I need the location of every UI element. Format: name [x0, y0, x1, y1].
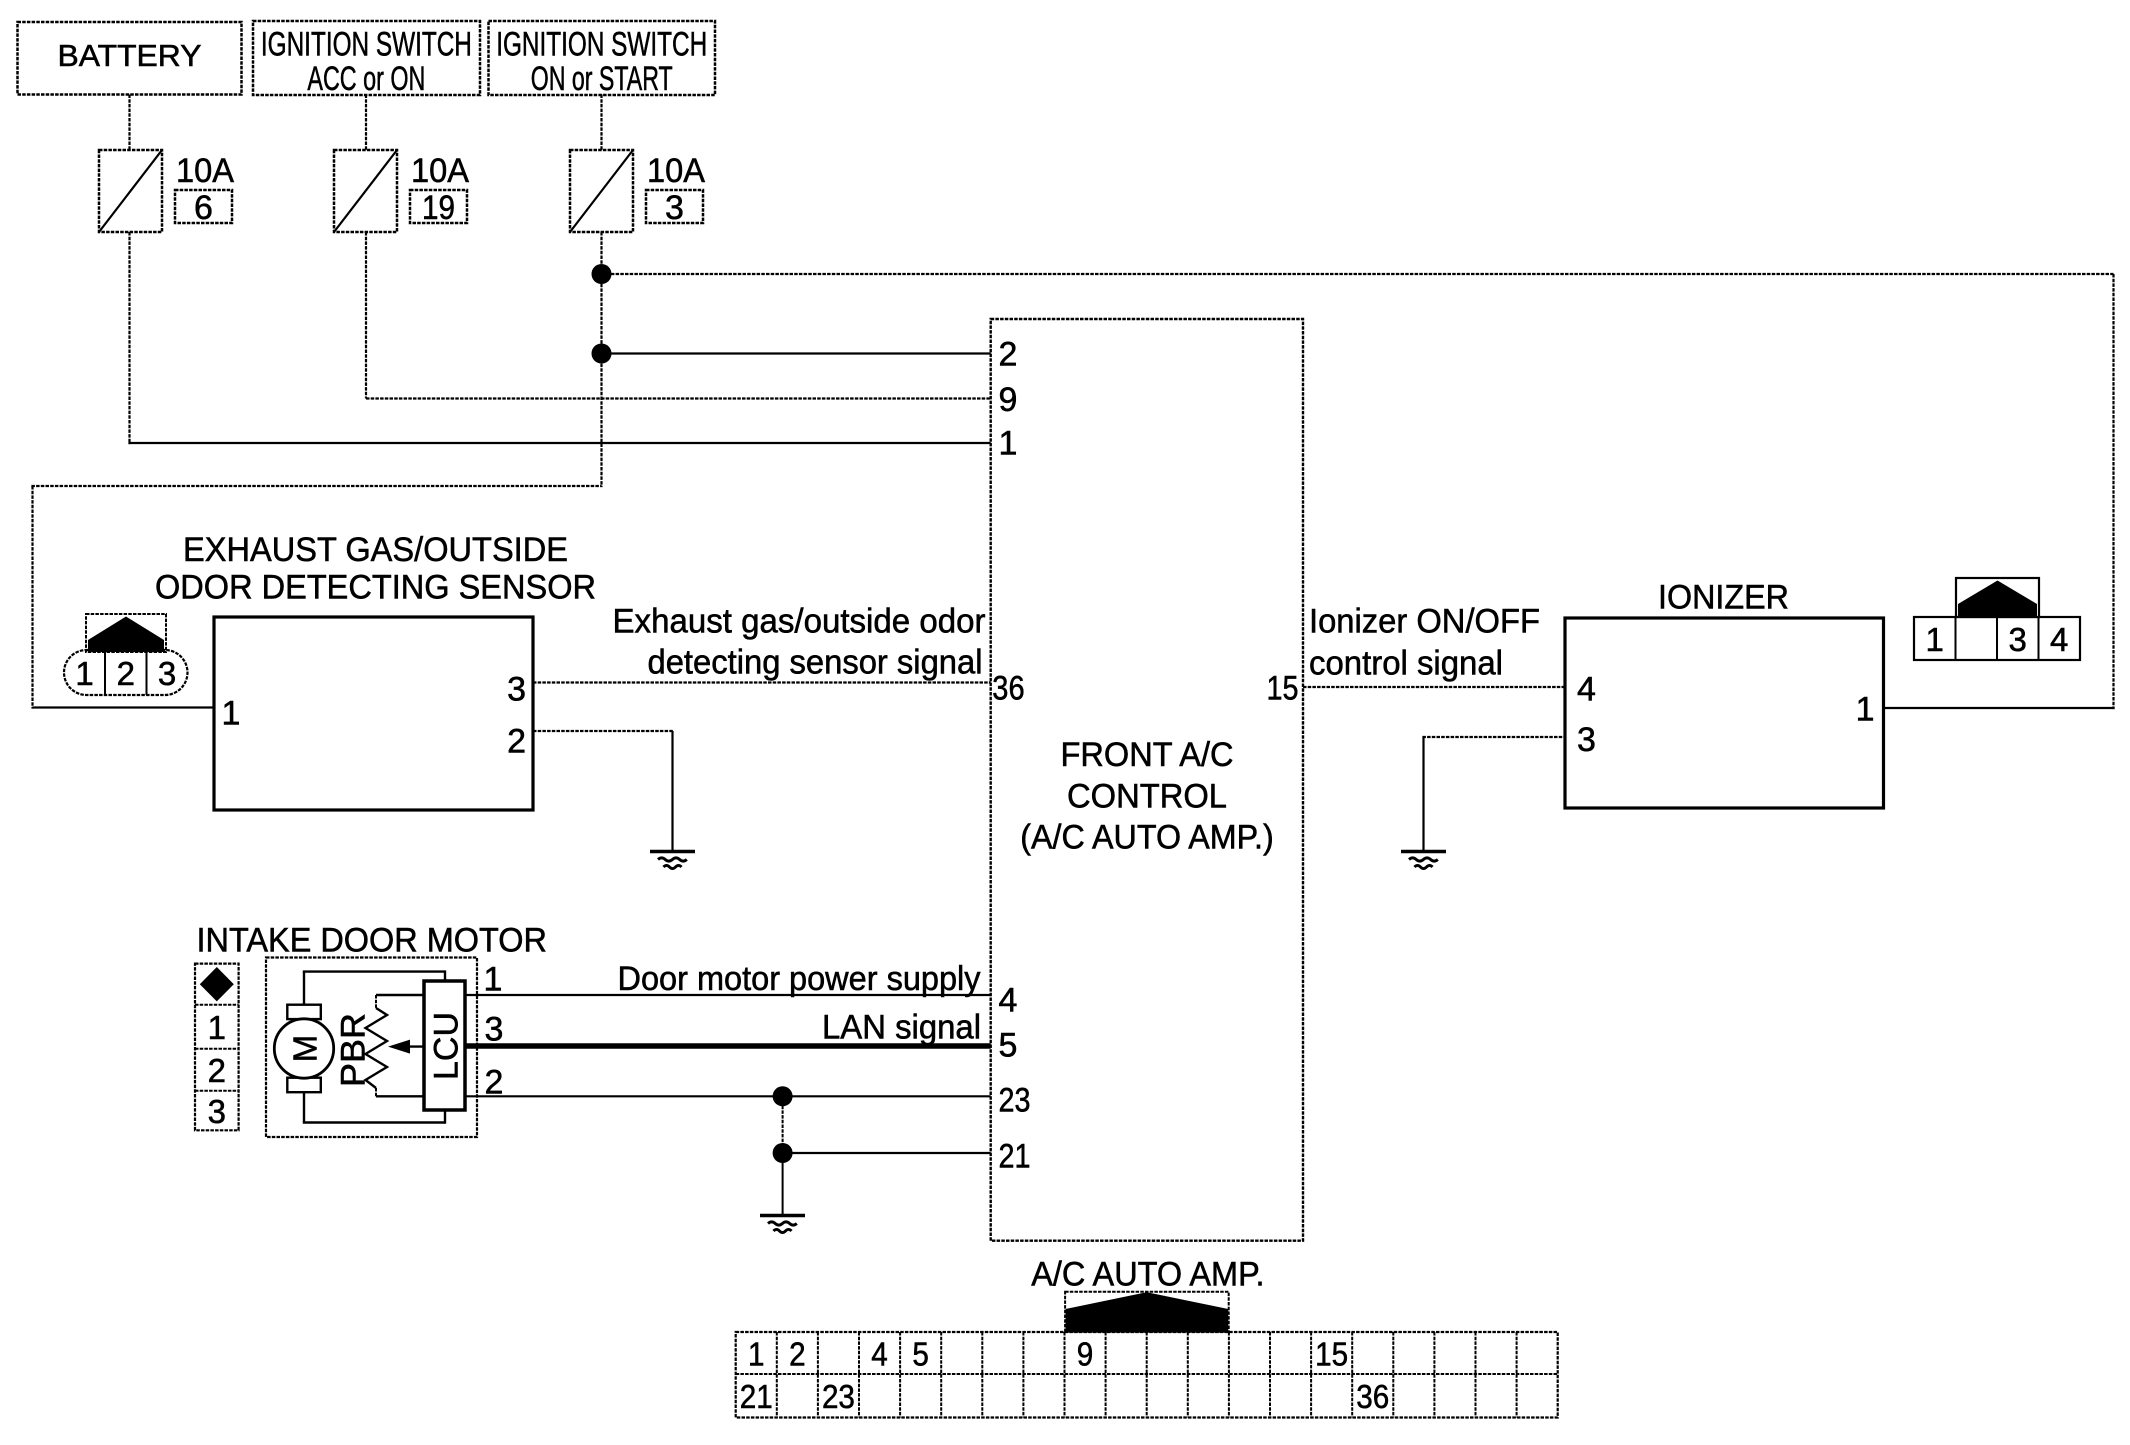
exhaust gas odor detecting sensor box — [214, 617, 533, 810]
wire fuse 19 to pin 9 — [366, 397, 991, 399]
wire into ionizer pin 1 — [1884, 707, 2115, 709]
ionizer connector keyway box — [1956, 578, 2039, 617]
junction node on pin 23 wire — [773, 1086, 793, 1106]
svg-text:9: 9 — [999, 381, 1018, 419]
svg-text:1: 1 — [1926, 621, 1944, 658]
svg-text:FRONT A/C: FRONT A/C — [1061, 736, 1234, 774]
svg-text:3: 3 — [2009, 621, 2027, 658]
PBR top connection to LCU — [376, 994, 424, 996]
wire sensor pin 2 right — [533, 730, 674, 732]
fuse 10A 6 — [99, 150, 162, 232]
fuse number box 6 — [175, 190, 232, 223]
wire fuse 3 leftward — [31, 485, 601, 487]
ionizer connector key pentagon — [1958, 581, 2037, 618]
svg-text:36: 36 — [1356, 1378, 1389, 1415]
svg-text:detecting sensor signal: detecting sensor signal — [648, 644, 983, 682]
sensor connector keyway box — [86, 614, 166, 652]
fuse 10A 3 — [570, 150, 633, 232]
svg-text:10A: 10A — [176, 152, 234, 190]
power source box BATTERY — [18, 22, 242, 95]
svg-text:IGNITION SWITCH: IGNITION SWITCH — [496, 25, 707, 63]
svg-text:23: 23 — [822, 1378, 855, 1415]
wire LCU pin 2 to amp pin 23 — [465, 1095, 991, 1097]
svg-text:3: 3 — [485, 1010, 504, 1048]
svg-text:EXHAUST GAS/OUTSIDE: EXHAUST GAS/OUTSIDE — [183, 531, 568, 569]
svg-text:4: 4 — [2050, 621, 2068, 658]
thick LAN signal wire LCU pin 3 to amp pin 5 — [465, 1043, 991, 1049]
svg-text:21: 21 — [740, 1378, 773, 1415]
svg-text:3: 3 — [208, 1093, 226, 1130]
svg-text:ODOR DETECTING SENSOR: ODOR DETECTING SENSOR — [155, 569, 596, 607]
svg-text:5: 5 — [912, 1335, 929, 1372]
amp connector keyway box — [1065, 1292, 1229, 1332]
svg-text:1: 1 — [484, 960, 503, 998]
ground symbol below intake junction — [760, 1214, 805, 1218]
wire junction down to ground — [782, 1153, 784, 1214]
amp connector key trapezoid — [1066, 1292, 1229, 1331]
wire into sensor pin 1 — [33, 706, 215, 708]
wire junction to pin 2 — [602, 352, 991, 354]
svg-text:10A: 10A — [411, 152, 469, 190]
wire amp pin 15 to ionizer pin 4 — [1303, 686, 1565, 688]
intake connector strip — [195, 964, 239, 1131]
svg-text:A/C AUTO AMP.: A/C AUTO AMP. — [1031, 1256, 1264, 1294]
svg-text:3: 3 — [1577, 721, 1596, 759]
svg-text:BATTERY: BATTERY — [58, 38, 202, 73]
wire ionizer pin 3 left — [1422, 736, 1565, 738]
wire junction down — [782, 1096, 784, 1153]
wire fuse 6 down — [128, 232, 130, 444]
svg-text:3: 3 — [665, 189, 684, 227]
motor M circle — [274, 1019, 333, 1078]
PBR bottom connection to LCU — [376, 1095, 424, 1097]
wire ignition ON-START to fuse 3 — [600, 95, 602, 151]
svg-text:21: 21 — [999, 1137, 1031, 1175]
svg-text:1: 1 — [75, 655, 93, 692]
ground symbol below sensor — [650, 850, 695, 854]
wire battery to fuse 6 — [128, 95, 130, 151]
svg-text:4: 4 — [1577, 670, 1596, 708]
wire sensor pin 3 to amp pin 36 — [533, 681, 991, 683]
fuse number box 19 — [410, 190, 467, 223]
wire fuse 6 to pin 1 — [128, 442, 990, 444]
motor terminal bottom — [287, 1078, 321, 1093]
svg-text:PBR: PBR — [335, 1013, 373, 1087]
wire LCU pin 1 to amp pin 4 — [465, 994, 991, 996]
svg-text:1: 1 — [222, 695, 241, 733]
svg-text:IGNITION SWITCH: IGNITION SWITCH — [261, 25, 472, 63]
svg-text:2: 2 — [789, 1335, 806, 1372]
svg-text:LCU: LCU — [428, 1012, 466, 1080]
svg-text:15: 15 — [1315, 1335, 1348, 1372]
svg-text:5: 5 — [999, 1026, 1018, 1064]
svg-text:19: 19 — [422, 189, 455, 227]
wire to top right corner — [602, 273, 2114, 275]
ionizer connector pin row 1 - 3 4 — [1914, 617, 2080, 660]
svg-text:3: 3 — [507, 671, 526, 709]
svg-text:2: 2 — [117, 655, 135, 692]
svg-text:LAN signal: LAN signal — [822, 1009, 981, 1047]
power source box IGNITION SWITCH ACC or ON — [253, 21, 480, 95]
ionizer box — [1565, 618, 1884, 808]
svg-text:1: 1 — [1856, 690, 1875, 728]
svg-text:4: 4 — [871, 1335, 888, 1372]
svg-text:23: 23 — [999, 1081, 1031, 1119]
sensor connector key pentagon — [88, 617, 164, 653]
wire ignition ACC to fuse 19 — [365, 95, 367, 151]
wire sensor pin 2 down to ground — [671, 731, 673, 850]
svg-text:ACC or ON: ACC or ON — [307, 60, 425, 98]
intake door motor dashed enclosure — [266, 958, 477, 1138]
ground symbol below ionizer — [1401, 850, 1446, 854]
PBR potentiometer zigzag — [375, 995, 377, 1008]
front A/C control amp box — [991, 319, 1303, 1241]
fuse number box 3 — [646, 190, 703, 223]
fuse 10A 19 — [334, 150, 397, 232]
svg-text:Door motor power supply: Door motor power supply — [618, 960, 981, 998]
svg-text:CONTROL: CONTROL — [1067, 778, 1227, 816]
svg-text:10A: 10A — [647, 152, 705, 190]
sensor connector pin row 1 2 3 — [64, 650, 188, 695]
intake connector key diamond — [200, 967, 234, 1001]
wire right edge down to ionizer pin 1 — [2112, 274, 2114, 709]
svg-text:IONIZER: IONIZER — [1658, 579, 1789, 617]
svg-text:control signal: control signal — [1309, 645, 1503, 683]
svg-text:1: 1 — [748, 1335, 765, 1372]
LCU box — [424, 981, 465, 1110]
motor supply loop wires — [303, 972, 305, 1005]
amp connector pin table — [736, 1332, 1558, 1418]
svg-text:2: 2 — [999, 336, 1018, 374]
junction node at fuse 3 wire and ionizer feed — [592, 264, 612, 284]
svg-text:36: 36 — [992, 669, 1024, 707]
svg-text:15: 15 — [1267, 669, 1299, 707]
wire fuse 19 down — [365, 232, 367, 399]
svg-text:(A/C AUTO AMP.): (A/C AUTO AMP.) — [1020, 819, 1274, 857]
svg-text:1: 1 — [999, 424, 1018, 462]
svg-text:Ionizer ON/OFF: Ionizer ON/OFF — [1309, 603, 1540, 641]
wire junction to amp pin 21 — [783, 1152, 991, 1154]
junction node to pin 2 — [592, 344, 612, 364]
svg-text:1: 1 — [208, 1009, 226, 1046]
svg-text:INTAKE DOOR MOTOR: INTAKE DOOR MOTOR — [197, 922, 548, 960]
power source box IGNITION SWITCH ON or START — [489, 21, 716, 95]
junction node on pin 21 wire — [773, 1143, 793, 1163]
wire left edge down — [31, 486, 33, 709]
motor terminal top — [287, 1005, 321, 1019]
PBR wiper arrow — [406, 1045, 424, 1047]
svg-text:M: M — [286, 1035, 323, 1063]
wire fuse 3 down — [600, 232, 602, 487]
svg-text:3: 3 — [158, 655, 176, 692]
svg-text:4: 4 — [999, 981, 1018, 1019]
svg-text:9: 9 — [1077, 1335, 1094, 1372]
svg-text:2: 2 — [507, 723, 526, 761]
svg-text:6: 6 — [194, 189, 213, 227]
svg-text:2: 2 — [208, 1052, 226, 1089]
svg-text:ON or START: ON or START — [531, 60, 673, 98]
svg-text:Exhaust gas/outside odor: Exhaust gas/outside odor — [613, 603, 986, 641]
wire ionizer pin 3 down to ground — [1422, 737, 1424, 850]
